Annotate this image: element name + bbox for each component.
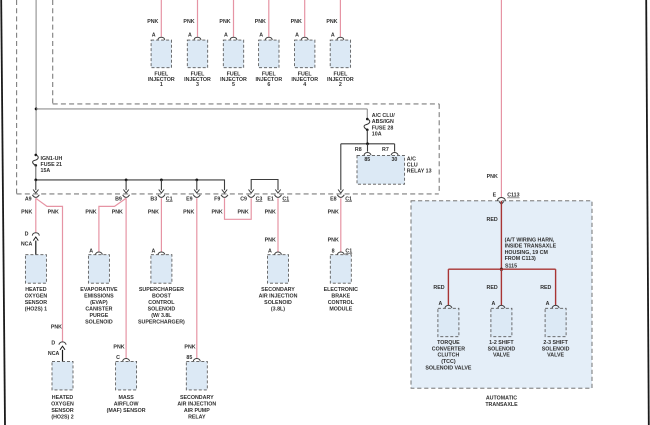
relay air pump box: [186, 361, 207, 390]
svg-text:3: 3: [196, 82, 199, 88]
svg-text:(HO2S) 1: (HO2S) 1: [25, 306, 47, 312]
svg-text:IGN1-UH: IGN1-UH: [41, 156, 63, 162]
svg-text:A9: A9: [25, 196, 32, 202]
svg-text:5: 5: [232, 82, 235, 88]
wire PNK E1 to SAI solenoid: [277, 198, 279, 252]
svg-text:OXYGEN: OXYGEN: [25, 293, 48, 299]
wire PNK B9 branch to EVAP: [99, 198, 126, 252]
svg-text:E: E: [493, 193, 497, 199]
wire B9 drop: [125, 180, 127, 190]
svg-text:(EVAP): (EVAP): [90, 300, 108, 306]
wire RED C113 to S115: [500, 201, 502, 269]
svg-text:PNK: PNK: [184, 344, 195, 350]
connector F9: [221, 195, 228, 198]
wire relay feed to E8: [340, 144, 342, 190]
svg-text:PNK: PNK: [183, 19, 194, 25]
svg-text:SECONDARY: SECONDARY: [261, 287, 295, 293]
wire relay pin30 drop: [394, 144, 396, 152]
svg-text:C1: C1: [345, 196, 352, 202]
splice S115: [500, 268, 503, 271]
svg-text:A: A: [224, 33, 228, 39]
svg-text:4: 4: [303, 82, 306, 88]
svg-text:VALVE: VALVE: [493, 353, 510, 359]
svg-text:PNK: PNK: [328, 210, 339, 216]
svg-text:SOLENOID: SOLENOID: [85, 319, 113, 325]
svg-text:TRANSAXLE: TRANSAXLE: [485, 402, 518, 408]
wire RED to 1-2 shift solenoid: [500, 269, 502, 305]
connector C9 C3: [248, 195, 255, 198]
svg-text:6: 6: [267, 82, 270, 88]
svg-text:1: 1: [160, 82, 163, 88]
svg-text:ABS/IGN: ABS/IGN: [372, 119, 394, 125]
wire PNK B9 to MAF: [125, 198, 127, 358]
wire feed horizontal to A/C fuse: [36, 108, 367, 110]
relay U1 A/C CLU RELAY 13 box: [357, 155, 405, 184]
svg-text:RED: RED: [487, 285, 498, 291]
svg-text:(MAF) SENSOR: (MAF) SENSOR: [107, 408, 146, 414]
PCM box inner-left edge: [52, 0, 54, 104]
wire PNK to fuel injector 3: [197, 0, 199, 37]
svg-text:A: A: [89, 248, 93, 254]
svg-text:A: A: [151, 248, 155, 254]
svg-text:EVAPORATIVE: EVAPORATIVE: [80, 287, 118, 293]
node bus A9: [34, 179, 37, 182]
svg-text:SOLENOID: SOLENOID: [264, 300, 292, 306]
svg-text:PNK: PNK: [265, 210, 276, 216]
svg-text:PNK: PNK: [328, 238, 339, 244]
connector B9: [123, 195, 130, 198]
wire ignition feed vertical: [35, 0, 37, 154]
node bus B3: [160, 179, 163, 182]
svg-text:1-2 SHIFT: 1-2 SHIFT: [489, 340, 514, 346]
svg-text:A: A: [295, 33, 299, 39]
wire PNK E9 to air pump relay: [196, 198, 198, 358]
svg-text:CLU: CLU: [407, 163, 418, 169]
wire fuse28 to relay branch: [366, 130, 368, 144]
fuse IGN1-UH FUSE 21 15A: [35, 154, 38, 157]
svg-text:CONVERTER: CONVERTER: [432, 346, 465, 352]
svg-text:SOLENOID: SOLENOID: [488, 346, 516, 352]
svg-text:F9: F9: [214, 196, 220, 202]
wire PNK to C113: [500, 0, 502, 198]
svg-text:BOOST: BOOST: [152, 293, 172, 299]
solenoid supercharger boost box: [151, 255, 172, 284]
svg-text:A/C: A/C: [407, 156, 416, 162]
wire relay pin85 drop: [367, 144, 369, 152]
svg-text:HOUSING, 19 CM: HOUSING, 19 CM: [505, 250, 549, 256]
svg-text:BRAKE: BRAKE: [331, 293, 350, 299]
svg-text:PNK: PNK: [85, 210, 96, 216]
pin 85 connector: [364, 152, 371, 155]
valve 2-3 shift solenoid box: [545, 308, 566, 336]
svg-text:RED: RED: [540, 285, 551, 291]
svg-text:PNK: PNK: [212, 210, 223, 216]
svg-text:R7: R7: [382, 147, 389, 153]
svg-text:A: A: [188, 33, 192, 39]
wire PNK A9 to HO2S1: [35, 198, 37, 232]
svg-text:C3: C3: [256, 196, 263, 202]
page border right: [646, 0, 649, 425]
PCM box right edge: [438, 104, 440, 193]
sensor HO2S2 box: [52, 361, 73, 390]
svg-text:R8: R8: [355, 147, 362, 153]
wire PNK to fuel injector 5: [233, 0, 235, 37]
svg-text:C1: C1: [166, 196, 173, 202]
svg-text:TORQUE: TORQUE: [437, 340, 460, 346]
svg-text:2: 2: [339, 82, 342, 88]
PCM box bottom edge: [17, 193, 439, 195]
PCM box left edge: [16, 0, 18, 194]
svg-text:85: 85: [364, 157, 370, 163]
svg-text:PNK: PNK: [148, 210, 159, 216]
svg-text:D: D: [25, 232, 29, 238]
svg-text:SOLENOID: SOLENOID: [542, 346, 570, 352]
bus ignition horizontal: [36, 180, 225, 190]
svg-text:OXYGEN: OXYGEN: [51, 402, 74, 408]
node feed junction: [35, 108, 38, 111]
svg-text:EMISSIONS: EMISSIONS: [84, 293, 114, 299]
svg-text:NCA: NCA: [21, 242, 33, 248]
svg-text:AUTOMATIC: AUTOMATIC: [486, 396, 517, 402]
sensor MAF box: [116, 361, 137, 390]
svg-text:HEATED: HEATED: [25, 287, 47, 293]
svg-text:SENSOR: SENSOR: [25, 300, 48, 306]
wire PNK to fuel injector 6: [268, 0, 270, 37]
svg-text:SOLENOID: SOLENOID: [148, 306, 176, 312]
svg-text:CONTROL: CONTROL: [328, 300, 355, 306]
node relay branch junction: [366, 142, 369, 145]
svg-text:PNK: PNK: [265, 238, 276, 244]
svg-text:PNK: PNK: [112, 210, 123, 216]
svg-text:SOLENOID VALVE: SOLENOID VALVE: [425, 366, 471, 372]
valve TCC solenoid box: [438, 308, 459, 336]
svg-text:PNK: PNK: [113, 344, 124, 350]
svg-text:C113: C113: [507, 193, 519, 199]
svg-text:PNK: PNK: [183, 210, 194, 216]
automatic transaxle box: [411, 201, 592, 388]
svg-text:PNK: PNK: [51, 325, 62, 331]
svg-text:CONTROL: CONTROL: [148, 300, 175, 306]
svg-text:C1: C1: [282, 196, 289, 202]
wire RED splice horizontal: [448, 268, 555, 270]
svg-text:(W/ 3.8L: (W/ 3.8L: [151, 313, 172, 319]
svg-text:PNK: PNK: [147, 19, 158, 25]
connector E9: [193, 195, 200, 198]
node bus B9: [125, 179, 128, 182]
svg-text:E1: E1: [267, 196, 274, 202]
node bus E9: [195, 179, 198, 182]
wire relay branch horizontal: [341, 143, 395, 145]
solenoid EVAP box: [88, 255, 109, 284]
svg-text:PNK: PNK: [238, 210, 249, 216]
svg-text:SENSOR: SENSOR: [51, 408, 74, 414]
svg-text:MASS: MASS: [118, 395, 134, 401]
svg-text:15A: 15A: [41, 168, 51, 174]
wire PNK B3 to supercharger solenoid: [160, 198, 162, 252]
svg-text:(A/T WIRING HARN,: (A/T WIRING HARN,: [505, 237, 555, 243]
connector B3 C1: [158, 195, 165, 198]
svg-text:RELAY: RELAY: [188, 415, 206, 421]
svg-text:SECONDARY: SECONDARY: [180, 395, 214, 401]
wire PNK to fuel injector 4: [304, 0, 306, 37]
connector A9: [32, 195, 39, 198]
svg-text:A/C CLU/: A/C CLU/: [372, 113, 395, 119]
svg-text:85: 85: [186, 355, 192, 361]
svg-text:8: 8: [332, 248, 335, 254]
wire PNK to fuel injector 1: [160, 0, 162, 37]
svg-text:CLUTCH: CLUTCH: [438, 353, 460, 359]
bus C9-E1 link: [251, 180, 278, 191]
wire A9 drop: [35, 180, 37, 190]
pin 30 connector: [391, 152, 398, 155]
solenoid SAI box: [268, 255, 289, 284]
svg-text:HEATED: HEATED: [52, 395, 74, 401]
svg-text:E8: E8: [330, 196, 337, 202]
svg-text:RED: RED: [487, 217, 498, 223]
page border left: [1, 0, 5, 425]
svg-text:AIR INJECTION: AIR INJECTION: [177, 402, 216, 408]
module EBCM box: [330, 255, 351, 284]
wire PNK A9 branch to HO2S2: [36, 198, 63, 342]
wire drop to fuse 28: [366, 109, 368, 119]
svg-text:NCA: NCA: [48, 351, 60, 357]
svg-text:FUSE 28: FUSE 28: [372, 125, 394, 131]
svg-text:ELECTRONIC: ELECTRONIC: [324, 287, 359, 293]
svg-text:SUPERCHARGER: SUPERCHARGER: [139, 287, 184, 293]
svg-text:A: A: [152, 33, 156, 39]
wire PNK E8 to EBCM: [340, 198, 342, 252]
wire B3 drop: [160, 180, 162, 190]
svg-text:PNK: PNK: [255, 19, 266, 25]
PCM box top edge: [53, 103, 440, 105]
svg-text:RELAY 13: RELAY 13: [407, 169, 432, 175]
wire fuse21 to bus: [35, 165, 37, 180]
svg-text:RED: RED: [433, 285, 444, 291]
wire E9 drop: [196, 180, 198, 190]
svg-text:2-3 SHIFT: 2-3 SHIFT: [543, 340, 568, 346]
sensor HO2S1 box: [25, 255, 46, 284]
svg-text:PURGE: PURGE: [89, 313, 108, 319]
svg-text:A: A: [546, 301, 550, 307]
svg-text:PNK: PNK: [487, 174, 498, 180]
connector E8 C1: [337, 195, 344, 198]
svg-text:CANISTER: CANISTER: [85, 306, 112, 312]
svg-text:(3.8L): (3.8L): [271, 306, 285, 312]
svg-text:PNK: PNK: [21, 210, 32, 216]
svg-text:A: A: [259, 33, 263, 39]
wire RED to TCC solenoid: [447, 269, 449, 305]
svg-text:10A: 10A: [372, 132, 382, 138]
wire PNK F9-C9 jumper: [225, 198, 252, 219]
svg-text:E9: E9: [186, 196, 193, 202]
svg-text:VALVE: VALVE: [547, 353, 564, 359]
svg-text:C: C: [116, 355, 120, 361]
svg-text:(HO2S) 2: (HO2S) 2: [51, 415, 73, 421]
svg-text:FROM C113): FROM C113): [505, 256, 536, 262]
svg-text:PNK: PNK: [291, 19, 302, 25]
svg-text:D: D: [51, 341, 55, 347]
svg-text:A: A: [331, 33, 335, 39]
svg-text:A: A: [491, 301, 495, 307]
svg-text:PNK: PNK: [48, 210, 59, 216]
svg-text:AIR INJECTION: AIR INJECTION: [259, 293, 298, 299]
svg-text:PNK: PNK: [219, 19, 230, 25]
svg-text:30: 30: [391, 157, 397, 163]
svg-text:PNK: PNK: [326, 19, 337, 25]
wire RED to 2-3 shift solenoid: [555, 269, 557, 305]
svg-text:B3: B3: [150, 196, 157, 202]
svg-text:A: A: [268, 248, 272, 254]
svg-text:SUPERCHARGER): SUPERCHARGER): [138, 319, 185, 325]
svg-text:MODULE: MODULE: [329, 306, 352, 312]
svg-text:AIRFLOW: AIRFLOW: [114, 402, 139, 408]
svg-text:AIR PUMP: AIR PUMP: [184, 408, 210, 414]
svg-text:C9: C9: [240, 196, 247, 202]
svg-text:C1: C1: [345, 248, 352, 254]
wire F9 arrow: [222, 190, 227, 194]
svg-text:INSIDE TRANSAXLE: INSIDE TRANSAXLE: [505, 244, 557, 250]
fuse A/C CLU ABS/IGN FUSE 28 10A: [366, 118, 369, 121]
svg-text:(TCC): (TCC): [441, 359, 456, 365]
wire PNK to fuel injector 2: [339, 0, 341, 37]
valve 1-2 shift solenoid box: [491, 308, 512, 336]
svg-text:A: A: [438, 301, 442, 307]
connector E1 C1: [275, 195, 282, 198]
